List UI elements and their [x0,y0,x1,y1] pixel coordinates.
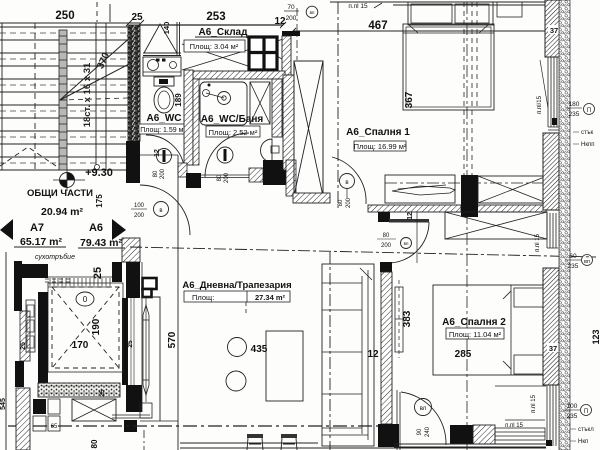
dining chairs circles [226,338,247,392]
bath door threshold [201,175,249,178]
elevator shaft [48,283,123,372]
svg-text:235: 235 [567,413,578,420]
stair treads [0,27,128,170]
svg-text:А6_Дневна/Трапезария: А6_Дневна/Трапезария [182,280,291,291]
sill lines [112,415,150,418]
svg-text:80: 80 [383,233,390,239]
hall area [41,206,84,218]
kitchen west wall strip [122,298,134,385]
living box axis dash [245,302,247,316]
svg-text:Площ: 3.04 м²: Площ: 3.04 м² [190,42,239,51]
bath bottom wall hatch left [178,163,187,177]
outer hatch wall sw [16,388,30,450]
svg-text:240: 240 [425,426,431,437]
wc toilet [154,77,174,113]
svg-text:П: П [587,108,591,114]
living door arc [388,222,429,263]
svg-text:в: в [159,208,162,214]
living door leaf [389,219,429,223]
bedroom axis dashdot [385,182,546,184]
wardrobe2 xbox [445,212,547,239]
axis dashdot bottom [8,425,385,427]
label 189 rotated [174,93,183,107]
chimney block black [461,175,478,217]
kitchen west wall black [126,262,140,298]
bedroom1 bottom wall hatch left [368,205,461,212]
bottom pier black [450,425,473,444]
bath door size 80/200 rotated [217,172,230,183]
stool 1 [247,434,263,450]
svg-text:25: 25 [99,389,106,397]
elevator top wall blacks [21,262,122,287]
svg-text:П: П [584,409,588,415]
svg-text:65.17 m²: 65.17 m² [20,236,63,248]
storage east wall black [282,31,300,75]
svg-text:А7: А7 [30,222,44,234]
corridor shaft bottom hatch [293,193,330,203]
vent circle top [306,6,318,18]
svg-text:200: 200 [286,15,297,22]
label 383 rotated [402,310,413,327]
east window 2 [547,213,558,248]
dimension 12 / 200 / 70 [274,4,299,27]
svg-text:А6_WC/Баня: А6_WC/Баня [201,114,264,125]
label 175 rotated [95,194,104,208]
svg-text:20.94 m²: 20.94 m² [41,206,84,218]
storage top wall line [140,24,283,26]
svg-text:200: 200 [224,172,230,183]
direction triangle east [112,219,126,240]
west wall blacks kitchen [14,261,30,387]
svg-text:200: 200 [381,243,392,249]
wc door arc [146,135,184,166]
svg-text:п.пl/15: п.пl/15 [537,95,543,114]
label 37 low [547,343,560,353]
pebble strip [559,0,570,450]
label pp15 rotated win3 [531,394,537,413]
wall wc-bath hatched [184,70,193,165]
svg-text:235: 235 [569,111,580,118]
hall top line [140,154,178,156]
dresser bedroom1 [385,175,455,203]
wc sink counter [143,57,181,76]
svg-text:Нкпп: Нкпп [581,142,594,148]
headboard shelf [408,2,522,25]
svg-text:37: 37 [549,344,557,353]
bedroom1 bottom wall hatch right [477,205,546,212]
svg-text:+9.30: +9.30 [85,167,113,179]
east window 3 [546,385,556,446]
svg-text:545: 545 [0,398,7,410]
svg-text:в: в [345,180,348,186]
svg-text:ОБЩИ ЧАСТИ: ОБЩИ ЧАСТИ [27,188,93,199]
svg-text:383: 383 [402,310,413,327]
dimension line 250 [0,10,144,26]
bath label [201,114,264,125]
bedroom2 door circle [415,399,432,416]
svg-text:200: 200 [346,197,352,208]
svg-text:стък: стък [581,130,593,136]
suhotrubie label [35,253,75,261]
radiator bottom window [495,428,545,440]
bedroom1 door arc [332,157,366,204]
wc label [146,113,181,124]
svg-text:Площ:: Площ: [192,293,214,302]
stool 2 [281,434,297,450]
storage label [195,27,251,38]
svg-text:80: 80 [338,199,344,206]
svg-text:37: 37 [550,26,558,35]
door size 90/240 rotated [417,426,431,437]
axis dashdot chimney [466,2,468,450]
svg-text:п.пl 15: п.пl 15 [531,394,537,413]
svg-text:вп: вп [404,241,409,246]
section dashdot line [130,247,596,257]
corridor shaft xbox [294,61,323,196]
svg-text:Площ: 16.99 м²: Площ: 16.99 м² [354,142,407,151]
bath shower [200,82,247,125]
storage bottom wall hatch [190,71,285,79]
stair left edge [1,23,3,170]
stair dashed verticals [35,2,110,170]
level mark [53,167,113,191]
svg-text:п.пl 15: п.пl 15 [348,3,368,10]
svg-text:25: 25 [131,12,143,23]
hatched pier [122,238,140,262]
svg-text:100: 100 [134,203,145,209]
svg-text:180: 180 [569,101,580,108]
stair label 370 [95,51,112,71]
svg-text:253: 253 [206,11,225,23]
label 140 rotated [162,22,171,35]
living area box [184,291,290,302]
wall living-bed2 black top [380,262,392,272]
bedroom1 door circle [340,174,355,199]
svg-text:235: 235 [568,263,579,270]
bath sink [261,139,280,162]
svg-text:А6: А6 [89,222,103,234]
svg-text:65: 65 [51,424,58,430]
radiator bed2 [395,280,403,358]
wc area box [139,124,187,134]
svg-text:0: 0 [83,295,88,304]
svg-text:80: 80 [90,439,99,448]
xbox below counter [72,399,116,421]
vent circle hall [154,202,169,217]
label pp15 rotated win1 [537,95,543,114]
svg-text:79.43 m²: 79.43 m² [80,237,123,249]
east corridor wall hatch [283,75,294,170]
label pp15 rotated win2 [535,233,541,252]
svg-text:12: 12 [367,349,379,360]
apartment areas [14,236,125,249]
bedroom2 door arc [401,392,446,445]
svg-text:80: 80 [153,170,159,177]
living west face line [177,155,179,450]
svg-text:А6_Спалня 1: А6_Спалня 1 [346,127,410,138]
window label 180/235 [566,101,595,118]
kitchen vent grid [143,278,157,297]
bath toilet [217,147,233,163]
axis dashdot sofa [329,252,331,450]
axis dashdot kitchen door [143,430,145,450]
west boundary wall hatched [128,25,140,141]
svg-text:367: 367 [404,91,415,108]
wc door circle [157,149,172,164]
label 80 rotated [90,439,99,448]
counter dotted [38,383,120,397]
svg-text:170: 170 [72,340,89,351]
dimension label 25 [131,12,143,23]
left edge line [5,252,7,450]
bath shaft xbox [250,82,270,124]
svg-text:Площ: 1.59 м²: Площ: 1.59 м² [140,127,186,134]
svg-text:вп: вп [310,10,315,15]
wc door size 80/200 rotated [153,168,166,179]
svg-text:100: 100 [567,403,578,410]
storage room floor diagonals [143,22,290,70]
storage area box [184,40,245,52]
svg-text:175: 175 [95,194,104,208]
svg-text:вп: вп [584,259,590,265]
wall living-bed2 black bottom [378,424,399,447]
bedroom2 door frame [397,390,400,450]
dining table [266,331,303,401]
label 285 [455,349,472,360]
wall inner face line [141,262,143,412]
bath area box [206,126,260,137]
east wall hatch mid [543,133,559,210]
svg-text:Площ: 11.04 м²: Площ: 11.04 м² [449,330,502,339]
svg-text:сухотръбие: сухотръбие [35,253,75,261]
stair label 18 steps [82,62,93,127]
svg-text:200: 200 [160,168,166,179]
inner black bar [38,292,48,385]
vent circle living [401,238,412,249]
bath door arc [205,133,249,177]
glass label 3 [570,427,594,445]
bedroom2 area box [446,328,504,339]
axis square west [124,420,137,432]
chimney axis dashed [464,2,477,175]
kitchen fixtures [26,300,35,352]
label 545 rotated [0,398,7,410]
kitchen counter edge [140,420,178,422]
small kitchen rect [140,403,152,418]
stair stringer [59,30,67,170]
svg-text:12: 12 [407,212,414,220]
svg-text:90: 90 [417,428,423,435]
svg-text:п.пl 15: п.пl 15 [535,233,541,252]
svg-text:А6_WC: А6_WC [146,113,181,124]
wall living-bed2 hatch [381,272,392,424]
label 12 wall thickness [407,212,414,220]
hall label [27,188,93,199]
window sill line bed2 [495,385,546,387]
bath bottom black step [186,173,201,188]
east wall hatch top [545,0,560,57]
west wall black segment [126,141,140,183]
door size 100/200 [131,203,147,219]
svg-text:190: 190 [91,318,102,335]
stair direction diagonals [60,35,133,100]
bedroom1 top wall [330,2,548,5]
bath bottom hatch pier [249,168,263,182]
label 367 rotated [404,91,415,108]
wardrobe1 xbox [478,176,547,203]
label pp15 bottom [505,420,545,429]
svg-text:25: 25 [127,340,134,348]
corridor wall hatch seg [286,160,296,196]
svg-text:А6_Спалня 2: А6_Спалня 2 [442,317,506,328]
bath west wall hatch [193,79,199,165]
label pp15 top [348,3,382,10]
svg-text:200: 200 [134,213,145,219]
kitchen east edge line [142,297,160,421]
door size 80/200 living [377,233,396,249]
svg-text:стъкл: стъкл [578,427,594,433]
dimension line 467 [290,20,560,34]
label 12 sofa [367,349,379,360]
dimension line 253 [140,11,286,28]
bottom wall lines [180,443,546,448]
axis dashdot corridor top [296,8,298,60]
svg-text:Нкп: Нкп [578,439,588,445]
kitchen west wall lower black [126,385,142,412]
svg-text:18ст. x 16 x 31: 18ст. x 16 x 31 [82,62,93,127]
svg-text:189: 189 [174,93,183,107]
svg-text:А6_Склад: А6_Склад [199,27,249,38]
storage shaft grid [249,37,277,70]
sofa [322,264,374,446]
bed 1 [403,24,494,110]
kitchen radiator lens [143,298,149,402]
bedroom2 label [442,317,506,328]
svg-text:70: 70 [287,4,295,11]
label 570 rotated [167,331,178,348]
label 170 [72,340,89,351]
bottom pier hatch [473,425,495,444]
svg-text:25: 25 [92,267,104,279]
label 435 [251,344,268,355]
direction triangle west [0,219,13,240]
svg-text:250: 250 [55,10,74,22]
svg-text:570: 570 [167,331,178,348]
label 37 top [548,25,560,35]
bedroom1 area box [354,141,407,151]
wall step black [378,212,390,222]
entrance door arc [140,185,190,235]
svg-text:467: 467 [368,20,387,32]
door size 80/200 rotated [338,197,352,208]
bath corner black [263,160,287,185]
glass label 1 [573,130,594,148]
apartment labels [30,222,103,234]
living title [182,280,291,291]
east wall hatch low [543,268,559,385]
svg-text:123: 123 [591,329,600,344]
window label 100/235 [564,403,592,420]
svg-text:80: 80 [217,174,223,181]
window label 60/235 [565,253,593,270]
bath east wall hatch [272,79,282,137]
edge label 123 [591,329,600,344]
svg-text:вл: вл [420,406,427,412]
svg-text:60: 60 [569,253,577,260]
label 190 rotated [91,318,102,335]
svg-text:285: 285 [455,349,472,360]
east window 1 [540,57,560,130]
bed 2 [433,285,545,375]
vestibule edge line [416,212,418,263]
stair dashed zigzag [0,147,56,166]
svg-text:27.34 m²: 27.34 m² [255,293,286,302]
bedroom1 label [346,127,410,138]
svg-text:140: 140 [162,22,171,35]
storage rooms sw [33,399,60,431]
axis dashdot bed1 [337,2,339,208]
svg-text:435: 435 [251,344,268,355]
label 12 rotated [154,149,161,157]
